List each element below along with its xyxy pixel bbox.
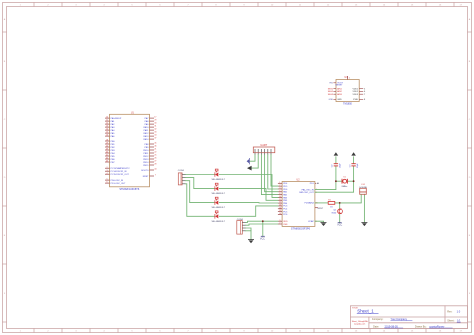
svg-text:16: 16 — [279, 213, 281, 215]
svg-text:PC15/OSC32_OUT: PC15/OSC32_OUT — [111, 174, 130, 176]
svg-text:NRST: NRST — [143, 176, 149, 178]
svg-text:SEG3: SEG3 — [328, 94, 334, 96]
svg-text:easyeda.com: easyeda.com — [354, 324, 366, 326]
svg-text:18: 18 — [106, 140, 108, 142]
svg-text:2019-08-05: 2019-08-05 — [385, 324, 399, 328]
svg-text:22: 22 — [154, 152, 156, 154]
svg-text:CON4: CON4 — [178, 170, 185, 172]
svg-text:PA12: PA12 — [143, 132, 149, 135]
svg-text:PC14/OSC32_IN: PC14/OSC32_IN — [111, 171, 127, 173]
svg-text:1.0: 1.0 — [457, 309, 461, 313]
svg-text:14: 14 — [279, 207, 281, 209]
svg-text:17: 17 — [154, 117, 156, 119]
svg-text:13: 13 — [106, 126, 108, 128]
svg-text:XTAL: XTAL — [353, 98, 359, 101]
svg-text:Date:: Date: — [373, 325, 379, 328]
svg-text:25: 25 — [154, 155, 156, 157]
svg-text:3: 3 — [107, 170, 108, 172]
svg-text:VDD3: VDD3 — [352, 94, 358, 96]
svg-text:10: 10 — [106, 117, 108, 119]
svg-text:VCAP: VCAP — [308, 220, 314, 223]
svg-text:PA13: PA13 — [143, 135, 149, 138]
svg-text:29: 29 — [154, 120, 156, 122]
svg-text:PA11: PA11 — [144, 129, 150, 132]
svg-text:PC13/TAMPER-RTC: PC13/TAMPER-RTC — [111, 167, 131, 170]
svg-text:TAL-4848DF-T: TAL-4848DF-T — [211, 178, 225, 181]
svg-text:VDD2: VDD2 — [352, 91, 358, 93]
svg-text:PB15: PB15 — [143, 165, 149, 167]
svg-text:PB11: PB11 — [143, 153, 149, 155]
svg-text:41: 41 — [106, 155, 108, 157]
svg-text:PA14: PA14 — [143, 138, 149, 141]
svg-text:14: 14 — [106, 129, 108, 131]
svg-text:GND: GND — [329, 99, 334, 101]
svg-text:42: 42 — [106, 158, 108, 160]
svg-text:PB12: PB12 — [143, 156, 149, 158]
svg-text:16: 16 — [106, 135, 108, 137]
svg-text:6: 6 — [107, 182, 108, 184]
svg-text:PA1-OSC_IN: PA1-OSC_IN — [302, 188, 315, 191]
svg-text:TAL-4848DF-T: TAL-4848DF-T — [211, 220, 225, 223]
svg-text:40: 40 — [106, 152, 108, 154]
svg-text:VCC: VCC — [337, 224, 342, 227]
svg-text:39: 39 — [106, 149, 108, 151]
svg-text:44: 44 — [154, 169, 156, 171]
svg-text:34: 34 — [154, 135, 156, 137]
svg-text:5: 5 — [107, 179, 108, 181]
svg-text:45: 45 — [154, 143, 156, 145]
svg-text:Company:: Company: — [372, 318, 384, 321]
svg-text:Drawn By:: Drawn By: — [415, 325, 427, 328]
svg-text:STM32F103C8T6: STM32F103C8T6 — [119, 188, 139, 191]
svg-text:BOOT0: BOOT0 — [141, 170, 149, 172]
svg-text:VCC: VCC — [260, 238, 265, 241]
svg-text:7: 7 — [279, 223, 280, 225]
svg-text:46: 46 — [154, 146, 156, 148]
svg-text:RESET: RESET — [336, 85, 344, 87]
svg-text:19: 19 — [106, 143, 108, 145]
svg-text:TM1650: TM1650 — [343, 102, 352, 105]
svg-text:2: 2 — [107, 167, 108, 169]
svg-text:5: 5 — [279, 190, 280, 192]
svg-text:11: 11 — [106, 120, 108, 122]
svg-text:32: 32 — [154, 129, 156, 131]
svg-text:VDD: VDD — [283, 221, 288, 223]
svg-text:TAL-4848DF-T: TAL-4848DF-T — [211, 206, 225, 209]
svg-text:2: 2 — [279, 185, 280, 187]
svg-text:UART: UART — [260, 144, 267, 147]
svg-text:SEG1: SEG1 — [328, 88, 334, 90]
svg-text:20: 20 — [106, 146, 108, 148]
svg-text:15: 15 — [106, 132, 108, 134]
svg-text:Rev:: Rev: — [447, 310, 452, 313]
svg-text:33: 33 — [154, 132, 156, 134]
svg-text:Sheet_1: Sheet_1 — [357, 309, 374, 314]
svg-text:26: 26 — [154, 158, 156, 160]
svg-text:STM8S003F3P6: STM8S003F3P6 — [291, 226, 311, 230]
svg-text:3: 3 — [279, 188, 280, 190]
svg-text:PD3/AIN4: PD3/AIN4 — [305, 202, 315, 205]
svg-text:20pF: 20pF — [357, 162, 359, 167]
svg-text:PA0-WKUP: PA0-WKUP — [111, 117, 122, 120]
svg-text:Your Company: Your Company — [391, 318, 408, 321]
svg-text:30: 30 — [154, 123, 156, 125]
svg-text:Sheet_1-EasyEDA: Sheet_1-EasyEDA — [352, 320, 369, 323]
svg-text:8MHz: 8MHz — [342, 186, 348, 188]
svg-text:6: 6 — [279, 193, 280, 195]
svg-text:4: 4 — [107, 173, 108, 175]
svg-text:PA2-OSC_OUT: PA2-OSC_OUT — [299, 191, 314, 194]
svg-text:PD0-OSC_IN: PD0-OSC_IN — [111, 180, 124, 182]
svg-text:12: 12 — [279, 202, 281, 204]
svg-text:11: 11 — [279, 199, 281, 201]
svg-text:21: 21 — [154, 149, 156, 151]
svg-text:PB13: PB13 — [143, 159, 149, 161]
svg-text:7: 7 — [155, 175, 156, 177]
svg-text:GND: GND — [337, 99, 342, 101]
svg-text:1: 1 — [279, 182, 280, 184]
svg-text:37: 37 — [154, 138, 156, 140]
svg-text:TAL-4848DF-T: TAL-4848DF-T — [211, 192, 225, 195]
svg-text:PD1-OSC_OUT: PD1-OSC_OUT — [111, 183, 127, 185]
svg-text:20pF: 20pF — [340, 162, 342, 167]
svg-text:PA10: PA10 — [143, 126, 149, 129]
svg-text:coostaRonev: coostaRonev — [429, 324, 445, 328]
svg-text:SOUND: SOUND — [359, 187, 367, 189]
svg-text:31: 31 — [154, 126, 156, 128]
svg-text:VSS: VSS — [283, 224, 288, 226]
svg-text:28: 28 — [154, 164, 156, 166]
svg-text:PB14: PB14 — [143, 162, 149, 164]
svg-text:1/1: 1/1 — [457, 319, 461, 323]
svg-text:Sheet:: Sheet: — [447, 320, 455, 323]
svg-text:27: 27 — [154, 161, 156, 163]
svg-text:VDD1: VDD1 — [352, 88, 358, 90]
svg-text:13: 13 — [279, 205, 281, 207]
svg-text:15: 15 — [279, 210, 281, 212]
svg-text:9: 9 — [279, 220, 280, 222]
svg-text:SEG2: SEG2 — [328, 91, 334, 93]
svg-text:A4: A4 — [317, 182, 319, 185]
svg-text:NRST: NRST — [318, 208, 324, 210]
svg-text:10: 10 — [279, 196, 281, 198]
svg-text:PB10: PB10 — [143, 150, 149, 152]
svg-text:12: 12 — [106, 123, 108, 125]
svg-text:CON4: CON4 — [237, 219, 244, 221]
svg-text:43: 43 — [106, 161, 108, 163]
